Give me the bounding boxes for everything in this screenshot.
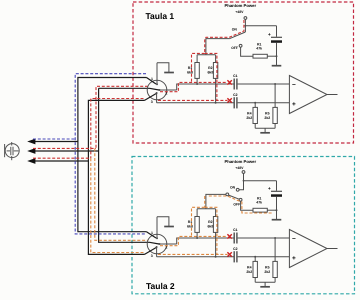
svg-text:3: 3: [151, 100, 153, 104]
connector XLR2 body: [147, 234, 167, 254]
svg-text:2k2: 2k2: [246, 270, 252, 274]
wire C1 to op-amp inverting input: [238, 83, 290, 85]
wire phantom rail to resistors: [197, 54, 216, 56]
ground GND4 (XLR2 shell): [157, 217, 169, 226]
resistor R3' 6k8 (phantom feed to pin3): [215, 209, 217, 217]
svg-text:2k2: 2k2: [246, 116, 252, 120]
svg-text:47k: 47k: [256, 47, 262, 51]
op-amp U1: [289, 76, 327, 114]
resistor R4' 2k2 (bias): [254, 257, 256, 262]
orange dashed phantom path Taula2 pin3 overlay: [91, 158, 144, 252]
XLR2 pin 1 terminal and wire up: [156, 217, 158, 239]
switch SW2 common contact: [226, 193, 229, 196]
switch SW1 OFF contact: [239, 44, 242, 47]
XLR2 pin 1 entry diagonal from cable: [147, 232, 157, 238]
svg-text:6k8: 6k8: [187, 70, 193, 74]
wire cold conductor vertical (XLR1 pin3 to XLR2 pin3): [88, 100, 144, 254]
node junction R5 on minus line: [274, 83, 276, 85]
XLR1 pin 3 entry diagonal from cable: [145, 94, 157, 101]
capacitor C1' (DC block, pin2): [233, 233, 235, 244]
ground GND5 (phantom filter): [272, 219, 282, 221]
resistor R3 6k8 (phantom feed to pin3): [215, 55, 217, 63]
svg-text:OFF: OFF: [231, 46, 238, 50]
resistor R2' 6k8 (phantom feed to pin2): [196, 209, 198, 217]
svg-text:+48V: +48V: [235, 166, 244, 170]
orange dashed phantom path Taula2 pin2 overlay: [95, 148, 148, 240]
arrowhead shield at mic: [27, 139, 35, 145]
microphone MIC1 side bar: [4, 144, 6, 157]
svg-text:C1: C1: [233, 228, 238, 232]
XLR2 pin 2 terminal and stub: [159, 243, 161, 245]
XLR2 pin 3 entry diagonal from cable: [145, 248, 157, 255]
wire cold arrow line to mic: [31, 160, 89, 162]
red dashed phantom path Taula1 pin2 overlay: [96, 86, 148, 148]
svg-text:+: +: [292, 101, 296, 108]
red X mark DC blocked at C2': [227, 252, 231, 256]
svg-text:C1: C1: [233, 74, 238, 78]
wire op-amp U2 output: [327, 248, 338, 250]
resistor R4 2k2 (bias): [254, 103, 256, 108]
wire C2 to op-amp non-inverting input: [238, 102, 290, 104]
red X mark DC blocked at C2: [227, 98, 231, 102]
red dashed overlay around resistor R2: [192, 53, 205, 82]
wire OFF contact to R1': [241, 201, 253, 210]
ground GND3 (bias): [260, 132, 270, 134]
svg-text:Phantom Power: Phantom Power: [224, 159, 256, 164]
resistor R2 6k8 (phantom feed to pin2): [196, 55, 198, 63]
wire hot conductor vertical (XLR1 pin2 to XLR2 pin2): [99, 88, 150, 242]
Taula 2 dashed enclosure box: [132, 157, 355, 294]
XLR1 pin 1 terminal and wire up: [156, 63, 158, 85]
svg-text:Taula 2: Taula 2: [146, 281, 175, 291]
switch SW2 lever (OFF position): [229, 195, 240, 199]
wire ON contact to +48V: [239, 173, 243, 189]
wire phantom feed from switch common: [206, 194, 226, 208]
svg-text:Taula 1: Taula 1: [146, 11, 175, 21]
red dashed phantom overlay switch and feed: [205, 20, 244, 53]
wire bias resistors to ground: [255, 281, 275, 283]
svg-text:C2: C2: [233, 93, 238, 97]
resistor R1' 47k (bleed): [253, 208, 267, 212]
svg-text:3: 3: [151, 254, 153, 258]
microphone MIC1 capsule plate B: [12, 147, 14, 155]
wire C1' to op-amp inverting input: [238, 237, 290, 239]
orange dashed phantom overlay along pin3 line: [158, 253, 228, 255]
microphone MIC1 capsule right lead: [14, 150, 19, 152]
capacitor C2 (DC block, pin3): [233, 97, 235, 108]
switch SW2 OFF contact: [239, 198, 242, 201]
svg-text:+48V: +48V: [235, 10, 244, 14]
arrowhead hot at mic: [27, 148, 35, 154]
connector XLR1 body: [147, 80, 167, 100]
wire pin2 jog up to signal line: [177, 84, 234, 90]
ground GND1 (XLR1 shell): [157, 63, 169, 72]
svg-text:C2: C2: [233, 247, 238, 251]
capacitor C2' (DC block, pin3): [233, 251, 235, 262]
svg-text:2k2: 2k2: [264, 116, 270, 120]
orange dashed overlay feed and lever: [209, 196, 272, 213]
XLR1 pin 2 terminal and stub: [159, 89, 161, 91]
svg-text:ON: ON: [230, 185, 236, 189]
svg-text:+: +: [268, 32, 271, 38]
wire hot horizontal into XLR1: [99, 87, 150, 89]
wire hot arrow line to mic: [31, 150, 99, 152]
resistor R1 47k (bleed): [253, 54, 267, 58]
ground GND2 (phantom filter): [272, 65, 282, 67]
wire pin2 jog up to signal line: [177, 238, 234, 244]
red X mark DC blocked at C1: [227, 80, 231, 84]
XLR2 pin 2 entry diagonal from cable: [150, 242, 160, 244]
svg-text:OFF: OFF: [233, 203, 240, 207]
svg-text:6k8: 6k8: [207, 224, 213, 228]
resistor R5' 2k2 (bias): [274, 238, 276, 261]
wire pin3 signal line to C2: [157, 256, 234, 258]
resistor R5 2k2 (bias): [274, 84, 276, 107]
red dashed phantom path to mic arrow3: [33, 157, 91, 159]
capacitor C3' polarized (phantom reservoir): [276, 181, 278, 191]
svg-text:ON: ON: [232, 28, 238, 32]
red dashed phantom overlay along pin2 line: [160, 82, 228, 91]
wire shield arrow line to mic: [31, 141, 78, 143]
capacitor C3 polarized (phantom reservoir): [276, 26, 278, 37]
switch SW1 ON wire to +48V: [244, 20, 246, 33]
wire pin3 signal line to C2: [157, 102, 234, 104]
op-amp U2: [289, 230, 327, 268]
arrowhead cold at mic: [27, 158, 35, 164]
red dashed phantom overlay along pin3 line: [158, 99, 228, 101]
svg-text:47k: 47k: [256, 201, 262, 205]
node junction R4 on plus line: [254, 102, 256, 104]
svg-text:2k2: 2k2: [264, 270, 270, 274]
wire OFF contact to R1: [241, 47, 253, 56]
red dashed overlay around resistor R3: [205, 53, 217, 100]
red dashed phantom path Taula1 pin3 overlay: [91, 99, 144, 159]
microphone MIC1 capsule plate A: [10, 147, 12, 155]
orange dashed overlay around resistor R2': [192, 207, 205, 236]
svg-text:−: −: [292, 81, 296, 88]
microphone MIC1 capsule left lead: [7, 150, 10, 152]
orange dashed overlay around resistor R3': [205, 207, 217, 254]
microphone MIC1 body circle: [5, 144, 19, 158]
XLR1 pin 2 entry diagonal from cable: [150, 88, 160, 90]
orange dashed overlay feed vertical: [204, 196, 206, 207]
svg-text:6k8: 6k8: [187, 224, 193, 228]
wire +48V rail to capacitor: [244, 180, 277, 182]
switch SW2 ON contact: [236, 188, 239, 191]
svg-text:6k8: 6k8: [207, 70, 213, 74]
svg-text:+: +: [292, 255, 296, 262]
wire op-amp U1 output: [327, 94, 338, 96]
wire bias resistors to ground: [255, 127, 275, 129]
switch SW1 lever (ON position): [230, 32, 246, 39]
node junction R4' on plus line: [254, 256, 256, 258]
XLR2 pin 3 terminal and wire down: [156, 246, 158, 248]
node junction R5' on minus line: [274, 237, 276, 239]
red X mark DC blocked at C1': [227, 234, 231, 238]
red dashed phantom path to mic arrow2: [33, 147, 96, 149]
microphone MIC1 bottom stub: [11, 156, 13, 160]
svg-text:−: −: [292, 235, 296, 242]
svg-text:Phantom Power: Phantom Power: [224, 3, 256, 8]
wire phantom feed from switch: [206, 39, 230, 55]
XLR1 pin 1 entry diagonal from cable: [147, 78, 157, 85]
wire +48V rail to capacitor: [245, 25, 276, 27]
wire C2' to op-amp non-inverting input: [238, 256, 290, 258]
blue dashed shield path overlay: [75, 74, 146, 234]
svg-text:+: +: [268, 186, 271, 192]
wire shield conductor vertical (XLR1 pin1 to XLR2 pin1): [78, 78, 147, 232]
XLR1 pin 3 terminal and wire down: [156, 92, 158, 94]
capacitor C1 (DC block, pin2): [233, 79, 235, 90]
Taula 1 dashed enclosure box: [133, 2, 354, 143]
orange dashed phantom overlay along pin2 line: [160, 236, 228, 245]
node +48V terminal Taula2: [242, 171, 245, 174]
blue dashed shield path to mic: [33, 138, 75, 140]
ground GND6 (bias): [260, 286, 270, 288]
microphone MIC1 top stub: [11, 142, 13, 146]
node +48V terminal: [244, 17, 247, 20]
wire phantom rail to resistors: [197, 208, 216, 210]
